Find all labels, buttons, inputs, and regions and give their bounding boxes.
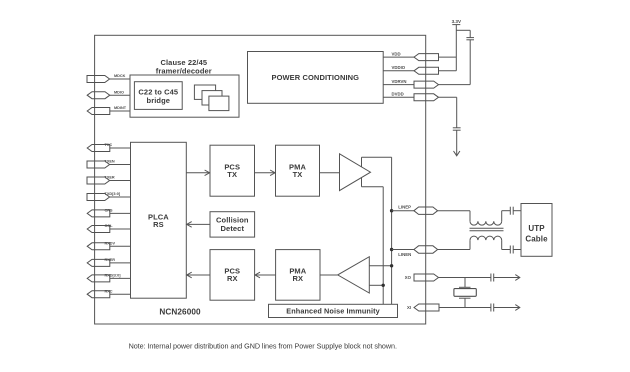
node RX- junction bbox=[382, 284, 385, 287]
capacitor C series (XI) bbox=[491, 304, 494, 312]
ground arrow (DVDD cap return) bbox=[454, 130, 460, 156]
capacitor C (3.3V to VDRVN) bbox=[466, 38, 474, 40]
svg-text:RS: RS bbox=[153, 220, 164, 229]
svg-text:RXD[3:0]: RXD[3:0] bbox=[105, 274, 122, 278]
svg-text:UTP: UTP bbox=[528, 224, 545, 233]
svg-text:Cable: Cable bbox=[525, 234, 548, 243]
wire XO to series capacitor bbox=[439, 277, 491, 279]
pin LINEN bbox=[392, 246, 438, 257]
wire 3.3V branch to bypass capacitor bbox=[456, 30, 470, 37]
line driver amplifier (TX) bbox=[340, 154, 371, 191]
svg-text:COL: COL bbox=[105, 224, 114, 228]
frames icon (cascaded rectangles) bbox=[194, 85, 229, 111]
pin TXER bbox=[87, 176, 131, 184]
block PLCA RS bbox=[131, 142, 187, 298]
wire choke bottom to series capacitor bbox=[502, 240, 510, 249]
pin XI bbox=[407, 304, 439, 311]
pin TXC bbox=[87, 143, 130, 151]
svg-text:NCN26000: NCN26000 bbox=[159, 307, 201, 316]
pin RXC bbox=[87, 289, 130, 297]
svg-text:POWER CONDITIONING: POWER CONDITIONING bbox=[271, 73, 359, 82]
svg-text:MDINT: MDINT bbox=[114, 106, 127, 110]
pin VDDIO bbox=[383, 65, 438, 74]
svg-text:VDRVN: VDRVN bbox=[392, 79, 407, 84]
arrow PCS TX to PMA TX bbox=[255, 170, 276, 176]
wire DVDD to decoupling capacitor bbox=[439, 97, 457, 128]
wire VDRVN pin to capacitor leg bbox=[439, 84, 471, 86]
capacitor C (DVDD decoupling) bbox=[453, 128, 461, 130]
svg-text:CRS: CRS bbox=[105, 209, 113, 213]
svg-text:XI: XI bbox=[407, 305, 411, 310]
wire choke top to series capacitor bbox=[502, 211, 510, 222]
wire RX receiver input bottom bbox=[369, 284, 383, 286]
svg-text:VDD: VDD bbox=[392, 51, 401, 56]
arrow PLCA RS to PCS TX bbox=[186, 170, 209, 176]
pin XO bbox=[405, 274, 439, 281]
line receiver amplifier (RX) bbox=[338, 257, 370, 293]
svg-text:3.3V: 3.3V bbox=[452, 19, 462, 24]
inductor L bottom winding bbox=[470, 236, 502, 240]
wire VDD to 3.3V rail bbox=[439, 56, 457, 58]
wire capacitor to UTP cable top bbox=[514, 210, 522, 212]
svg-text:DVDD: DVDD bbox=[392, 92, 404, 97]
svg-text:TX: TX bbox=[227, 170, 237, 179]
arrow Collision Detect to PLCA RS bbox=[187, 222, 210, 228]
block Collision Detect bbox=[210, 212, 255, 237]
block PMA RX bbox=[276, 250, 320, 301]
svg-text:XO: XO bbox=[405, 275, 412, 280]
svg-text:LINEP: LINEP bbox=[398, 205, 411, 210]
block Clause 22/45 framer/decoder bbox=[130, 58, 239, 117]
svg-text:TXD[3:0]: TXD[3:0] bbox=[105, 192, 121, 196]
pin MDCK bbox=[87, 74, 130, 82]
wire capacitor to VDRVN bbox=[469, 40, 471, 85]
wire RX receiver to PMA RX bbox=[320, 274, 338, 276]
pin COL bbox=[87, 224, 130, 232]
pin MDIO bbox=[87, 90, 130, 98]
block PCS RX bbox=[210, 250, 255, 301]
svg-text:TX: TX bbox=[293, 170, 303, 179]
pin RXDV bbox=[87, 242, 130, 250]
pin RXD[3:0] bbox=[87, 274, 130, 282]
pin VDD bbox=[383, 51, 438, 60]
block POWER CONDITIONING bbox=[248, 52, 384, 104]
pin LINEP bbox=[392, 205, 438, 215]
block PCS TX bbox=[210, 145, 255, 196]
capacitor C series (top line) bbox=[510, 207, 513, 215]
svg-text:bridge: bridge bbox=[147, 96, 171, 105]
svg-text:MDIO: MDIO bbox=[114, 90, 124, 94]
wire PMA TX to line driver bbox=[320, 172, 340, 174]
chip outline NCN26000 bbox=[95, 35, 426, 324]
wire capacitor to UTP cable bottom bbox=[514, 249, 522, 251]
svg-text:MDCK: MDCK bbox=[114, 74, 126, 78]
svg-text:Note: Internal power distribut: Note: Internal power distribution and GN… bbox=[129, 342, 397, 351]
svg-text:TXC: TXC bbox=[105, 143, 113, 147]
svg-text:RXER: RXER bbox=[105, 258, 116, 262]
pin TXD[3:0] bbox=[87, 192, 131, 200]
block PMA TX bbox=[276, 145, 320, 196]
pin TXEN bbox=[87, 160, 131, 168]
wire LINEP to choke bbox=[438, 211, 470, 222]
svg-text:Detect: Detect bbox=[221, 224, 245, 233]
crystal Y1 bbox=[454, 278, 476, 308]
svg-text:TXEN: TXEN bbox=[105, 160, 115, 164]
svg-text:VDDIO: VDDIO bbox=[392, 65, 406, 70]
svg-text:TXER: TXER bbox=[105, 176, 115, 180]
pin CRS bbox=[87, 209, 130, 217]
arrow PMA RX to PCS RX bbox=[255, 272, 276, 278]
supply 3.3V bbox=[452, 19, 462, 71]
node LINEP junction bbox=[390, 209, 393, 212]
capacitor C series (bottom line) bbox=[510, 246, 513, 254]
pin VDRVN bbox=[383, 79, 438, 88]
svg-text:LINEN: LINEN bbox=[398, 252, 411, 257]
arrow XO output bbox=[494, 275, 520, 281]
svg-text:RXC: RXC bbox=[105, 289, 113, 293]
node LINEN junction bbox=[390, 248, 393, 251]
svg-text:RX: RX bbox=[292, 274, 303, 283]
block Enhanced Noise Immunity bbox=[269, 304, 398, 317]
svg-text:framer/decoder: framer/decoder bbox=[156, 66, 212, 75]
svg-text:Enhanced Noise Immunity: Enhanced Noise Immunity bbox=[286, 307, 380, 316]
arrow XI input bbox=[494, 305, 520, 311]
block UTP Cable bbox=[521, 204, 552, 257]
pin DVDD bbox=[383, 92, 438, 101]
block C22 to C45 bridge bbox=[134, 82, 182, 110]
pin MDINT bbox=[87, 106, 130, 114]
pin RXER bbox=[87, 258, 130, 266]
wire XI to series capacitor bbox=[439, 307, 491, 309]
inductor L top winding bbox=[470, 221, 502, 225]
svg-text:RXDV: RXDV bbox=[105, 242, 116, 246]
svg-text:RX: RX bbox=[227, 274, 238, 283]
arrow PCS RX to PLCA RS bbox=[187, 272, 210, 278]
choke core bbox=[470, 228, 504, 230]
node RX+ junction bbox=[390, 264, 393, 267]
wire LINEN to choke bbox=[438, 240, 470, 249]
wire TX driver output bracket bbox=[362, 157, 392, 187]
wire line bus B (TX+ / RX+) bbox=[391, 157, 393, 304]
wire RX receiver input top bbox=[369, 265, 391, 267]
capacitor C series (XO) bbox=[491, 274, 494, 282]
wire line bus A (TX- / RX-) bbox=[382, 187, 384, 305]
wire VDDIO to 3.3V rail bbox=[439, 70, 457, 72]
